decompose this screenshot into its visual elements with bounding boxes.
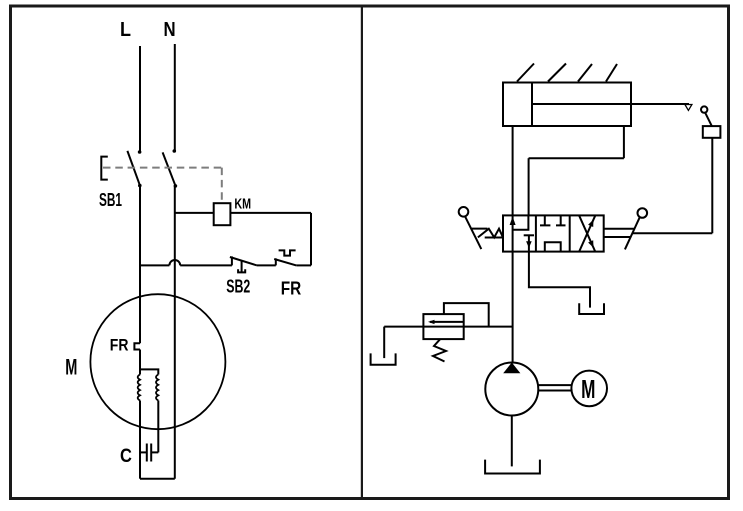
valve divider 2 [569, 215, 571, 251]
relief valve internal arrowhead [428, 320, 435, 324]
svg-text:FR: FR [110, 336, 129, 355]
wire hump to SB2 [180, 264, 232, 266]
wire crossover hump over N [169, 260, 180, 265]
svg-text:M: M [581, 376, 595, 404]
wire right riser up [310, 213, 312, 266]
switch SB1 pole N pivot dot [174, 184, 178, 188]
pipe jog down to valve B [528, 158, 530, 215]
valve right cell arrowhead 1 [588, 220, 593, 228]
spring left rails [472, 229, 503, 238]
switch SB1 mechanical link dashed horizontal [103, 167, 222, 169]
pump triangle [503, 363, 520, 374]
tank drain symbol [371, 353, 396, 364]
thermal element FR heater notch [134, 343, 140, 349]
panel divider [361, 6, 363, 499]
pipe jog horizontal [529, 157, 624, 159]
wire main winding down [139, 401, 141, 479]
wire L down to motor [139, 186, 141, 344]
wire N to KM coil [175, 212, 214, 214]
winding auxiliary coil [156, 375, 158, 401]
pipe P valve to pump [512, 252, 514, 363]
valve centre cell P-T bridge [545, 242, 561, 251]
relay contact FR blade [274, 259, 296, 265]
cylinder rod [532, 103, 689, 105]
pushbutton SB2 actuator stem [241, 261, 243, 272]
valve centre cell blocked stub 1 [540, 215, 550, 225]
svg-text:M: M [65, 355, 77, 380]
wire auxiliary winding down to capacitor [157, 401, 159, 453]
pump suction pipe [511, 416, 513, 467]
capacitor C right lead [151, 451, 158, 453]
svg-text:FR: FR [281, 277, 302, 298]
valve right actuator stub upper [604, 228, 635, 230]
wire KM to right riser [230, 212, 311, 214]
lever roller right circle [638, 208, 648, 218]
valve left cell up arrowhead [510, 217, 516, 226]
drain pipe to tank [383, 327, 385, 359]
motor M circle [90, 294, 225, 429]
switch SB1 operator bracket [101, 157, 108, 180]
wire L supply [139, 46, 141, 152]
wire N supply [174, 44, 176, 151]
relief valve main line [384, 326, 512, 328]
wire L notch to winding [139, 350, 141, 375]
wire FR to right riser [296, 264, 311, 266]
valve right actuator stub lower [604, 236, 631, 238]
valve left cell T bar [524, 234, 534, 236]
mount hatch 4 [606, 64, 617, 82]
pipe cylinder left port to valve A [512, 126, 514, 215]
valve body [503, 215, 604, 251]
valve centre cell blocked stub 2 [556, 215, 566, 225]
relief valve spring [433, 339, 446, 361]
lever right arm [625, 218, 640, 250]
valve left cell down arrowhead [526, 241, 532, 248]
capacitor C left lead [140, 451, 147, 453]
capacitor C left plate [146, 444, 148, 462]
relay FR thermal symbol [279, 250, 296, 255]
pipe cylinder right port down [623, 126, 625, 158]
node N contact dot [173, 149, 177, 153]
coil KM box [214, 203, 231, 225]
mount hatch 1 [517, 64, 534, 82]
limit switch link horizontal [632, 232, 712, 234]
svg-text:SB1: SB1 [99, 190, 122, 210]
wire winding branch top [140, 369, 158, 374]
mount hatch 3 [578, 64, 592, 82]
switch SB1 pole N blade [163, 152, 176, 186]
wire control branch from L [140, 264, 169, 266]
valve left cell P-A line [512, 215, 514, 251]
limit switch link vertical [711, 138, 713, 233]
relief valve internal arrow line [430, 321, 464, 323]
rod end striker triangle [685, 105, 692, 111]
svg-text:N: N [164, 19, 176, 41]
tank T symbol [579, 303, 604, 314]
spring left zigzag [478, 229, 503, 238]
pushbutton SB2 actuator cup [238, 269, 245, 272]
wire bottom rung [140, 478, 175, 480]
lever left arm [465, 216, 481, 249]
relay contact FR fixed tick [275, 258, 277, 265]
valve right cell cross arrow 1 [579, 216, 595, 252]
valve divider 1 [535, 215, 537, 251]
switch SB1 pole L pivot dot [138, 184, 142, 188]
tank suction symbol [485, 460, 540, 474]
node L contact dot [138, 150, 142, 154]
cylinder piston [531, 83, 533, 127]
pump circle [485, 363, 538, 416]
relief valve body [423, 314, 463, 339]
svg-text:C: C [120, 446, 132, 467]
wire SB2 to FR [257, 264, 276, 266]
winding main coil [138, 375, 140, 401]
lever roller left circle [459, 207, 469, 217]
valve left cell T line down [528, 235, 530, 251]
pipe T valve to tank [529, 252, 590, 308]
limit switch SQ roller [701, 106, 707, 112]
shaft coupling lines [538, 385, 571, 390]
relief valve pilot line [444, 303, 489, 327]
switch SB1 pole L blade [127, 151, 140, 186]
valve right cell cross arrow 2 [579, 216, 595, 252]
svg-text:L: L [120, 19, 131, 41]
cylinder body [503, 83, 631, 127]
valve right cell arrowhead 2 [588, 240, 593, 248]
limit switch SQ box [703, 126, 721, 138]
mount hatch 2 [548, 64, 566, 82]
limit switch SQ lever [705, 113, 712, 126]
switch SB1 mechanical link dashed vertical [221, 168, 223, 204]
motor drive circle [571, 371, 607, 407]
pushbutton SB2 blade [230, 257, 257, 265]
wire N down through motor [174, 186, 176, 479]
pushbutton SB2 fixed contact tick [231, 256, 233, 265]
capacitor C right plate [150, 444, 152, 462]
valve left cell elbow [513, 215, 528, 229]
svg-text:SB2: SB2 [226, 275, 250, 296]
svg-text:KM: KM [234, 197, 251, 213]
